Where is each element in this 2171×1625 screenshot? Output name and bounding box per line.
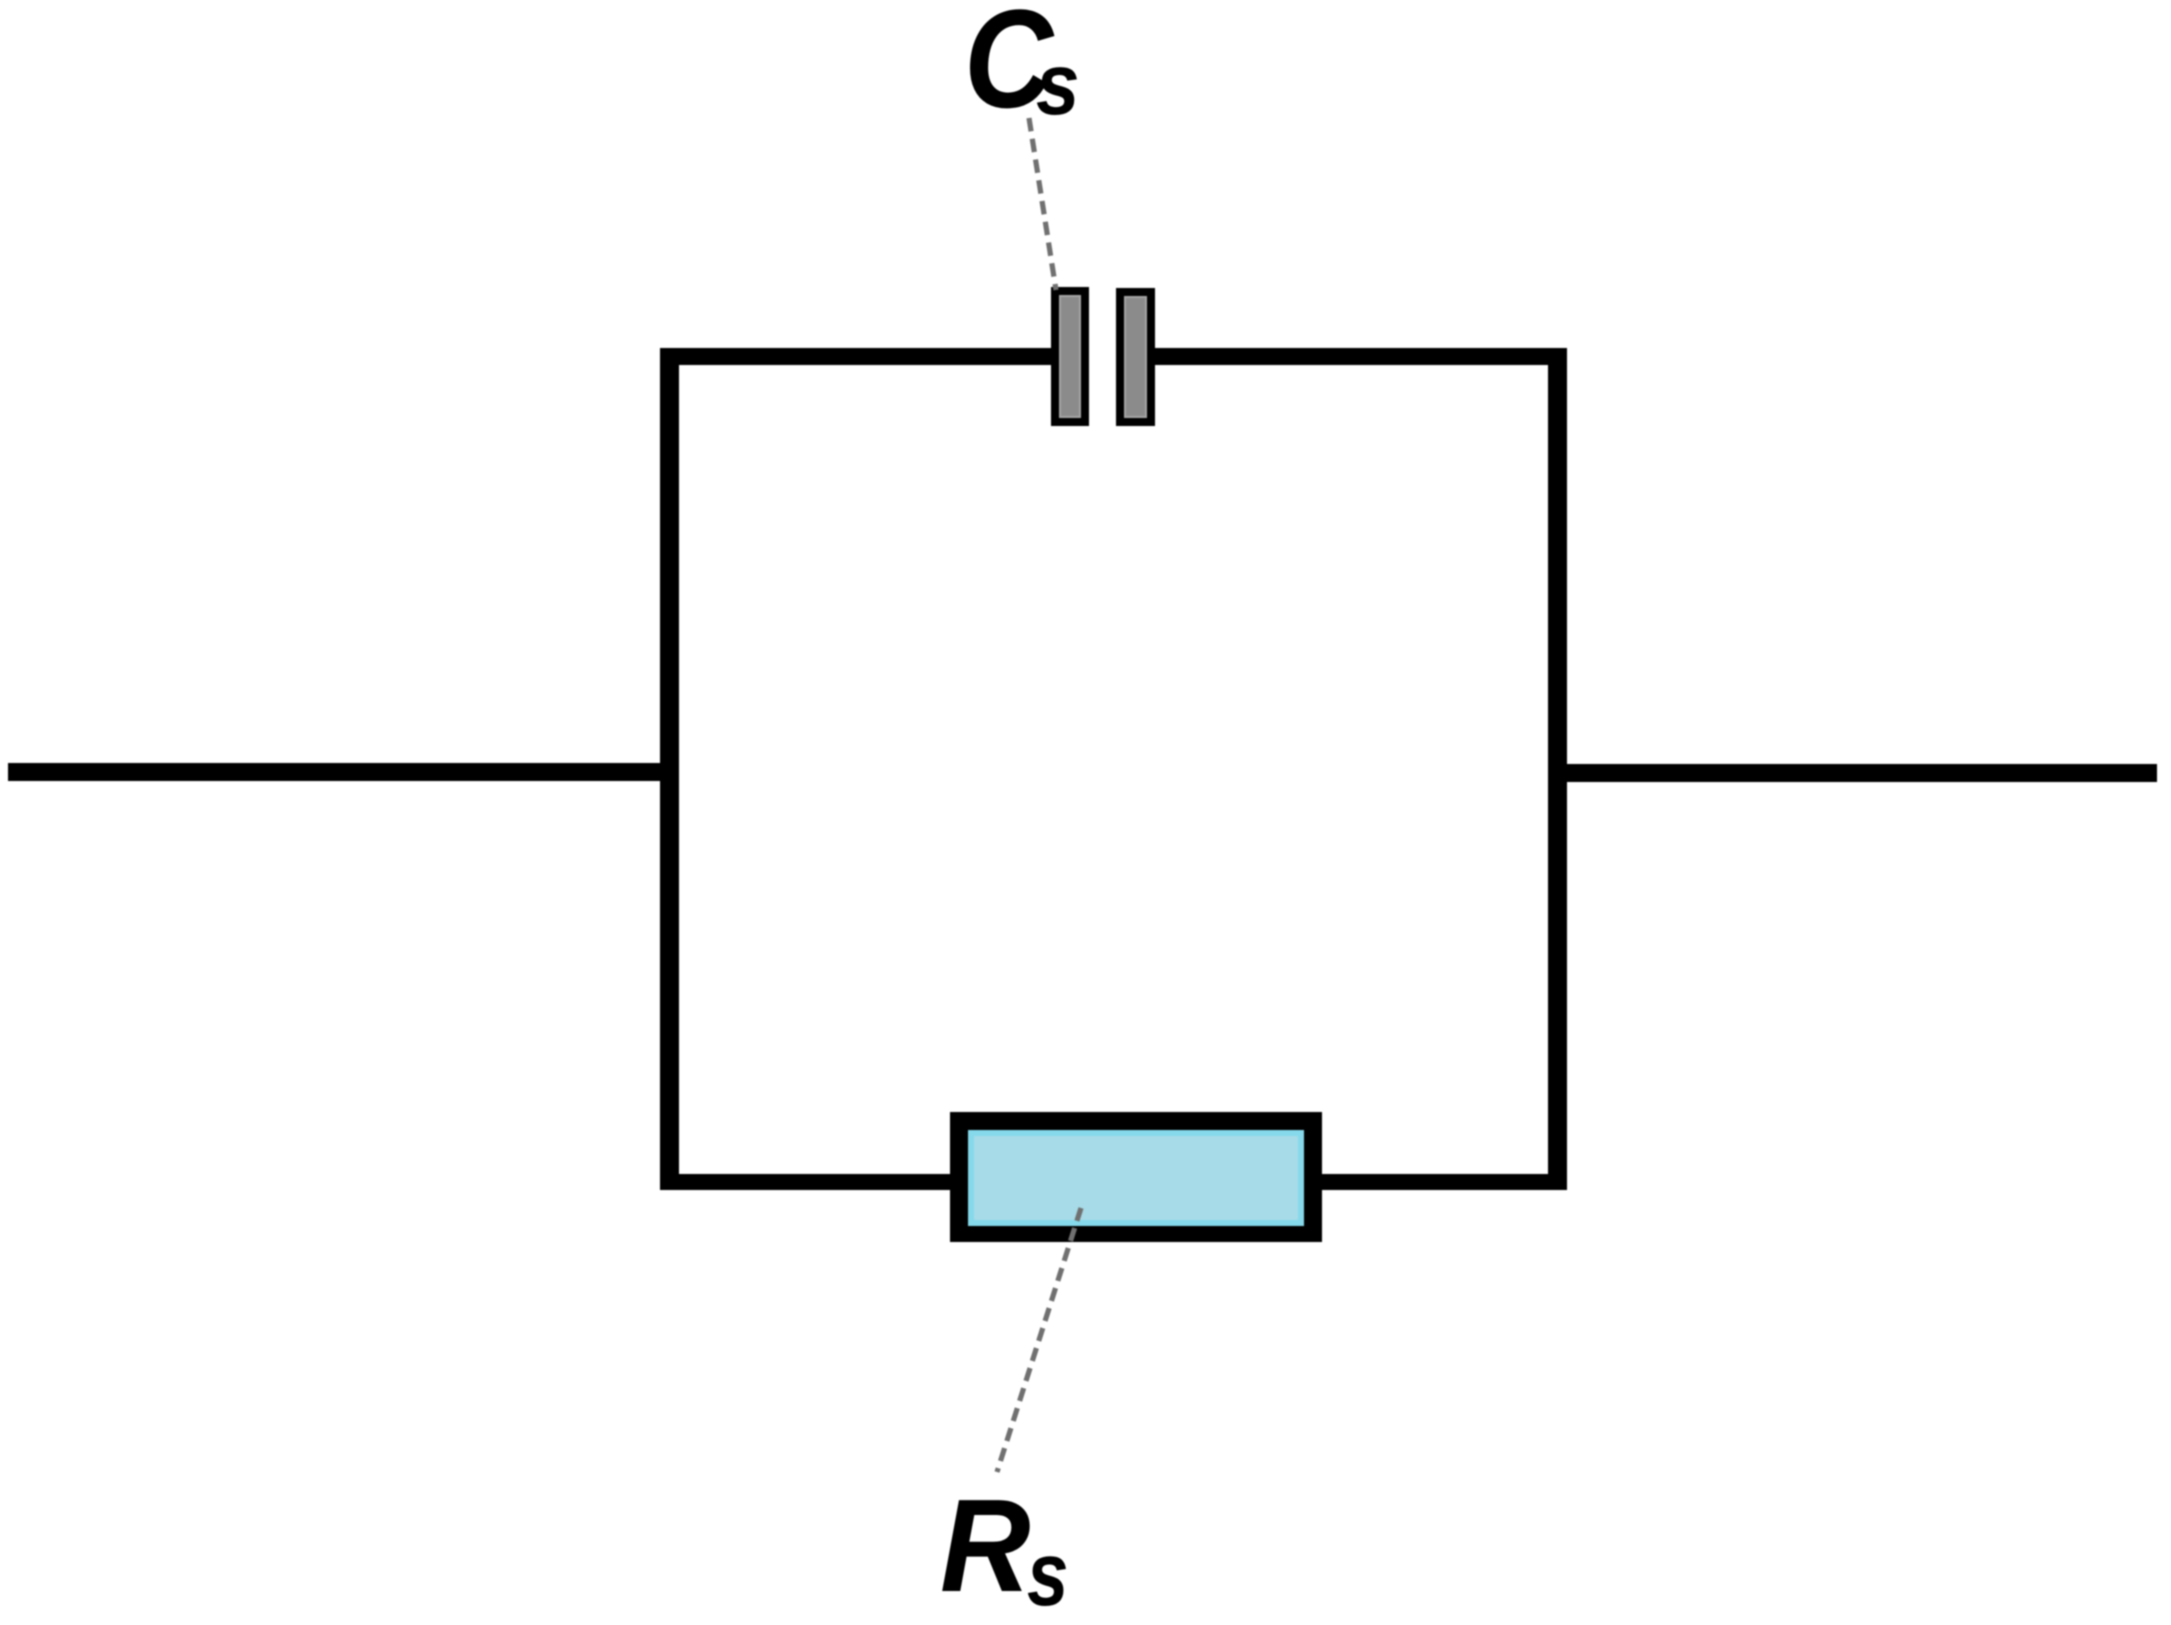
wire loop top left segment [660,348,1054,365]
capacitor Cs left plate [1051,287,1089,426]
wire right lead [1552,764,2157,782]
label Rs [0,0,1,1]
wire loop left side [660,348,679,1190]
label Cs [0,0,1,1]
wire loop right side [1548,348,1567,1190]
wire loop bottom left segment [660,1174,960,1190]
wire loop top right segment [1152,348,1567,365]
resistor Rs body [950,1112,1322,1242]
wire left lead [8,763,666,781]
wire loop bottom right segment [1312,1174,1567,1190]
capacitor Cs right plate [1116,288,1155,426]
